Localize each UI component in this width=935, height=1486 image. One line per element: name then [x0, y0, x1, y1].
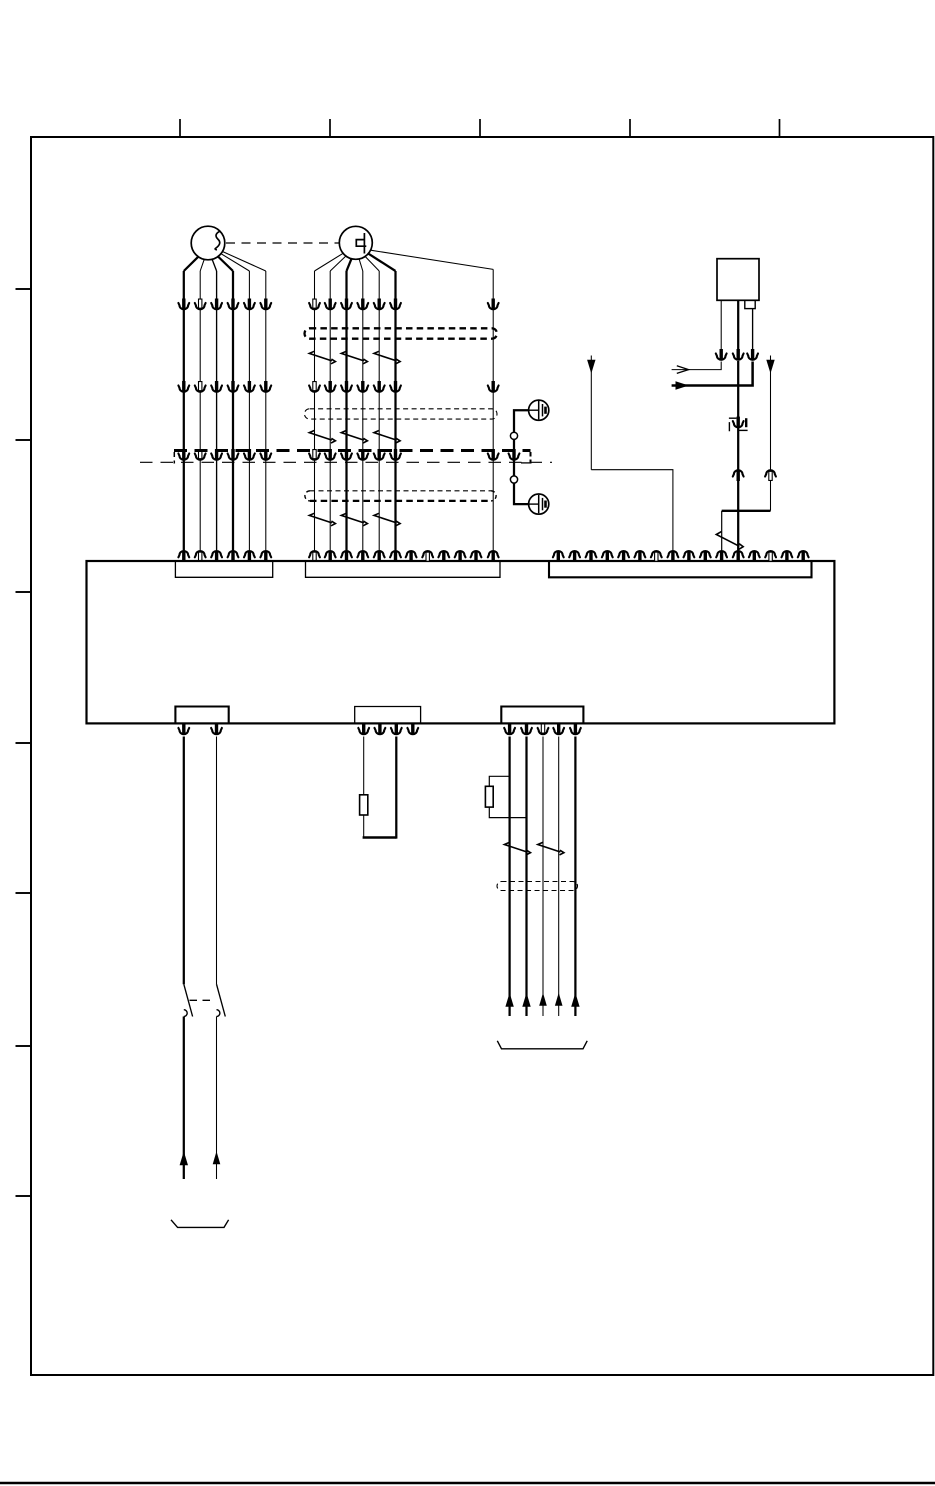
- resistor R1: [360, 795, 368, 815]
- connector stub: [602, 551, 613, 562]
- connector stub: [765, 551, 776, 561]
- wire G1 with resistor loop: [358, 723, 369, 837]
- wire F1 (to rear harness): [178, 723, 189, 1179]
- relay K1: [717, 259, 759, 301]
- junction block J/B: [87, 561, 835, 723]
- crossover symbol: [538, 842, 564, 855]
- wire S2-3: [341, 259, 352, 562]
- connector stub: [471, 551, 482, 562]
- wire K1-C: [672, 309, 758, 390]
- resistor R2 branch: [489, 776, 526, 817]
- crossover symbol: [374, 431, 400, 444]
- harness bundle B2 (thin): [305, 409, 498, 419]
- wire S1-3: [211, 259, 222, 562]
- relay tab: [745, 300, 755, 308]
- wire S1-1: [178, 257, 198, 562]
- connector stub: [406, 551, 417, 562]
- wire S1-5: [221, 254, 255, 562]
- crossover symbol: [309, 351, 335, 364]
- connector stub: [375, 723, 386, 734]
- dashed boundary corner right: [530, 452, 532, 462]
- connector stub: [700, 551, 711, 562]
- lamp L2: [529, 494, 549, 514]
- connector stub: [569, 551, 580, 562]
- connector stub: [422, 551, 433, 561]
- crossover symbol: [504, 842, 530, 855]
- wire K1-B (main feed): [733, 300, 744, 562]
- harness bundle B1 (taped, heavy): [305, 328, 498, 338]
- connector stub: [618, 551, 629, 562]
- wire S1-2: [195, 259, 206, 561]
- resistor R2: [485, 786, 493, 807]
- lamp L1: [529, 400, 549, 420]
- connector stub: [407, 723, 418, 734]
- connector C2: [306, 561, 501, 577]
- terminal: [510, 476, 517, 483]
- connector stub: [749, 551, 760, 562]
- connector C1: [175, 561, 272, 577]
- connector stub: [782, 551, 793, 562]
- connector stub: [684, 551, 695, 562]
- wire E (from cowl harness): [587, 356, 678, 562]
- switch S2: [339, 226, 372, 259]
- wire S1-6: [223, 252, 272, 562]
- wire G3 (return): [363, 723, 402, 838]
- connector C5: [355, 707, 421, 724]
- dashed connector boundary (heavy): [174, 449, 531, 452]
- connector stub: [553, 551, 564, 562]
- dashed boundary (thin, long): [140, 461, 552, 463]
- wire S2-7 (long run to right): [371, 250, 499, 562]
- connector C4: [175, 707, 228, 724]
- harness bracket: [171, 1220, 229, 1228]
- mechanical link (dashed) between S1 and S2: [226, 242, 339, 244]
- wire S2-1: [309, 253, 343, 561]
- wire S2-6: [368, 254, 401, 562]
- harness bundle B4 (thin): [497, 882, 578, 891]
- wire H3 (to floor harness): [538, 724, 549, 1016]
- in-line connector boundary (dashed corner): [521, 462, 532, 464]
- wire K1-A: [672, 300, 727, 373]
- connector stub: [455, 551, 466, 562]
- terminal: [510, 432, 517, 439]
- crossover symbol: [341, 513, 367, 526]
- connector stub: [635, 551, 646, 562]
- crossover symbol: [309, 431, 335, 444]
- ignition switch S1: [191, 226, 225, 260]
- switch S3 (2-pole, linked): [184, 984, 226, 1016]
- wire S1-4: [218, 257, 238, 562]
- wire H1 (to floor harness): [504, 723, 515, 1016]
- wire F2 (to rear harness): [211, 723, 222, 1179]
- dashed boundary corner left: [173, 452, 175, 464]
- crossover symbol: [341, 351, 367, 364]
- wire S2-2: [325, 256, 346, 562]
- crossover symbol: [341, 431, 367, 444]
- wire H4 (to floor harness): [553, 723, 564, 1016]
- crossover symbol: [716, 532, 743, 550]
- wire H5 (to floor harness): [570, 723, 581, 1016]
- crossover symbol: [374, 513, 400, 526]
- connector stub: [586, 551, 597, 562]
- connector C3: [549, 561, 812, 577]
- connector stub: [798, 551, 809, 562]
- crossover symbol: [309, 513, 335, 526]
- wire to lamps (trunk): [509, 410, 529, 504]
- connector stub: [438, 551, 449, 562]
- wire H2 (to floor harness): [521, 723, 532, 1016]
- wire S2-4: [357, 259, 368, 562]
- connector C6: [501, 707, 583, 724]
- in-line connector boundary (dashed box): [729, 418, 748, 431]
- harness bracket: [497, 1041, 587, 1049]
- wire S2-5: [365, 256, 385, 561]
- harness bundle B3 (mixed): [305, 491, 496, 501]
- connector stub: [651, 551, 662, 561]
- crossover symbol: [374, 351, 400, 364]
- wire D (from body harness): [716, 356, 776, 562]
